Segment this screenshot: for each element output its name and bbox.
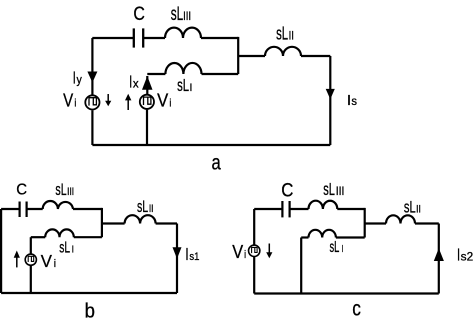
svg-text:V: V: [41, 251, 52, 271]
wire a middle branch right: [202, 73, 239, 75]
wire c sLII to corner: [415, 222, 439, 224]
svg-text:i: i: [244, 249, 246, 261]
svg-text:III: III: [67, 186, 74, 198]
wire a cap to inductor: [143, 37, 165, 39]
source V1 squarewave glyph: [89, 98, 96, 106]
svg-text:s: s: [351, 94, 357, 108]
svg-text:sL: sL: [323, 179, 335, 199]
current arrow Is (down): [326, 89, 335, 99]
wire b top right: [73, 208, 102, 210]
svg-text:V: V: [232, 242, 243, 262]
svg-text:sL: sL: [55, 181, 66, 199]
wire a top-left horizontal: [92, 37, 134, 39]
svg-text:sL: sL: [171, 4, 183, 25]
inductor sLIII (circuit b): [43, 201, 73, 209]
svg-text:C: C: [133, 4, 145, 25]
source V2 circle (circuit a right): [140, 95, 154, 109]
wire a top right: [201, 37, 238, 39]
svg-text:V: V: [157, 91, 168, 111]
svg-text:II: II: [289, 28, 294, 42]
wire b right vertical: [101, 208, 103, 237]
wire c left vertical top: [253, 209, 255, 245]
svg-text:y: y: [77, 73, 82, 87]
svg-text:I: I: [185, 244, 188, 264]
capacitor C (circuit c): [282, 201, 289, 217]
wire b sLII to corner: [156, 222, 177, 224]
wire c inner vertical: [300, 238, 302, 294]
wire a middle branch left: [147, 73, 165, 75]
small arrow up beside Vb: [14, 251, 20, 268]
svg-text:sL: sL: [276, 22, 288, 43]
svg-text:sL: sL: [330, 239, 340, 256]
inductor sLI (circuit b): [45, 229, 74, 237]
wire c top-left: [254, 208, 282, 210]
inductor sLIII (circuit c): [309, 201, 338, 209]
wire c inner horizontal left: [301, 236, 308, 238]
wire b inner horizontal left: [31, 236, 45, 238]
svg-text:c: c: [352, 296, 361, 320]
svg-text:C: C: [281, 181, 293, 202]
wire b cap to inductor: [27, 208, 43, 210]
wire c below source: [253, 256, 255, 293]
svg-text:II: II: [149, 203, 154, 215]
svg-text:i: i: [74, 98, 76, 110]
wire c bottom horizontal: [254, 292, 439, 294]
source Vc squarewave glyph: [252, 247, 258, 253]
wire a left vertical (Iy branch): [91, 38, 93, 95]
svg-text:a: a: [212, 152, 221, 175]
wire c top right: [337, 208, 364, 210]
svg-text:I: I: [73, 68, 76, 88]
svg-text:I: I: [129, 71, 132, 91]
svg-text:s1: s1: [189, 251, 199, 263]
current arrow Is1 (down): [173, 247, 182, 259]
wire a branch to sLII: [238, 55, 265, 57]
wire a Ix vertical: [146, 76, 148, 94]
source V2 squarewave glyph: [144, 97, 151, 105]
svg-text:b: b: [85, 300, 95, 322]
small arrow down beside Vc: [266, 244, 272, 259]
wire a below Ix source: [146, 110, 148, 145]
svg-text:sL: sL: [59, 240, 70, 257]
wire a below left source: [91, 110, 93, 145]
wire b far right vertical: [176, 224, 178, 294]
source V1 circle (circuit a left): [85, 95, 99, 109]
wire b inner branch left vertical top: [30, 237, 32, 254]
wire b inner horizontal right: [74, 236, 102, 238]
wire c far right vertical: [438, 224, 440, 294]
wire b top-left: [1, 208, 20, 210]
wire a bottom horizontal: [92, 144, 330, 146]
inductor sLI (circuit c): [309, 230, 336, 238]
wire b branch to sLII: [102, 222, 125, 224]
wire c cap to inductor: [290, 208, 309, 210]
capacitor C (circuit b): [20, 202, 27, 218]
current arrow Is2 (up): [434, 248, 444, 261]
wire b bottom horizontal: [1, 292, 177, 294]
inductor sLI (circuit a): [165, 63, 201, 74]
svg-text:III: III: [183, 9, 191, 23]
svg-text:sL: sL: [137, 198, 148, 216]
source Vb circle (circuit b): [25, 254, 36, 265]
inductor sLII (circuit b): [125, 215, 156, 223]
wire a right vertical down: [237, 37, 239, 74]
wire a sLII to corner: [301, 55, 330, 57]
wire b below source: [30, 265, 32, 293]
svg-text:i: i: [169, 98, 171, 110]
wire b left vertical: [0, 209, 2, 293]
wire c right vertical: [364, 208, 366, 238]
inductor sLII (circuit a): [265, 47, 301, 56]
svg-text:s2: s2: [461, 251, 474, 263]
svg-text:V: V: [63, 91, 73, 111]
svg-text:sL: sL: [404, 198, 416, 217]
inductor sLIII (circuit a): [165, 28, 201, 38]
svg-text:II: II: [416, 204, 421, 216]
svg-text:i: i: [54, 258, 56, 270]
svg-text:I: I: [72, 244, 74, 255]
capacitor C (circuit a): [134, 28, 143, 47]
source Vb squarewave glyph: [28, 256, 34, 262]
wire a far right vertical: [329, 56, 331, 145]
current arrow Iy (down): [87, 72, 97, 83]
svg-text:I: I: [189, 82, 192, 94]
svg-text:III: III: [336, 186, 345, 198]
small arrow down beside V1: [105, 94, 111, 106]
current arrow Ix (up): [142, 76, 153, 90]
svg-text:I: I: [457, 244, 460, 264]
wire c branch to sLII: [365, 222, 386, 224]
wire c inner horizontal right: [336, 236, 365, 238]
svg-text:C: C: [16, 182, 27, 199]
inductor sLII (circuit c): [386, 215, 415, 223]
source Vc circle (circuit c): [249, 245, 260, 256]
svg-text:x: x: [133, 78, 139, 90]
svg-text:I: I: [342, 244, 344, 255]
svg-text:sL: sL: [177, 75, 189, 95]
small arrow up beside V2: [125, 94, 131, 110]
